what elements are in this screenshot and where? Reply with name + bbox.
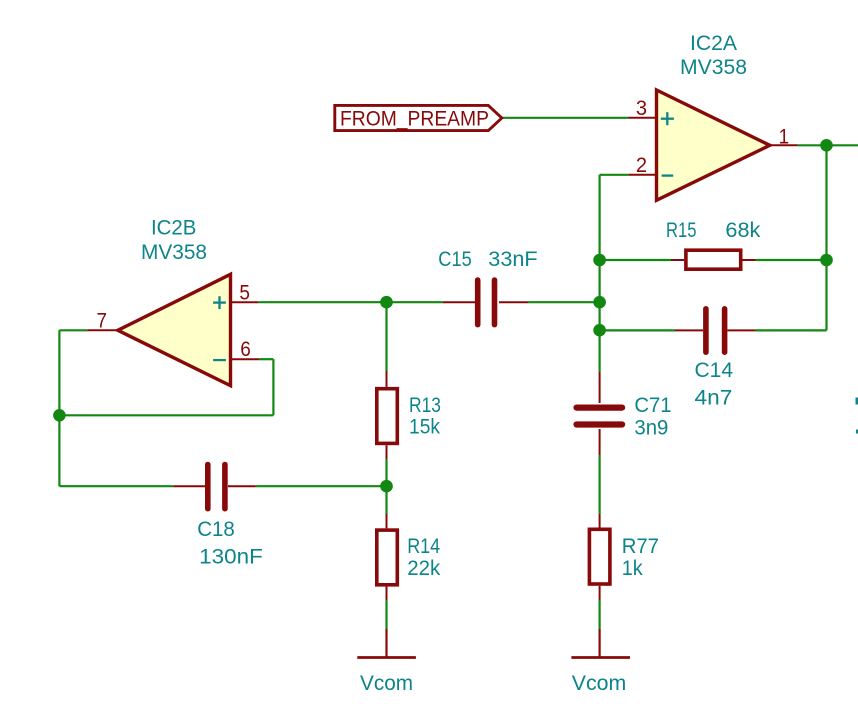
ground Vcom left (357, 629, 416, 658)
op-amp IC2B plus symbol (213, 296, 226, 309)
op-amp IC2B minus symbol (213, 359, 226, 361)
svg-text:15k: 15k (409, 414, 440, 438)
wire feedback horizontal (59, 414, 273, 416)
capacitor C18 (173, 465, 255, 509)
edge-clipped label fragment lower (856, 430, 858, 434)
svg-text:Vcom: Vcom (360, 671, 413, 695)
capacitor C15 (443, 280, 528, 325)
svg-text:FROM_PREAMP: FROM_PREAMP (340, 106, 489, 130)
svg-text:R14: R14 (407, 534, 440, 558)
svg-text:68k: 68k (725, 218, 760, 242)
op-amp U IC2B body (118, 274, 231, 385)
junction C14 node (593, 324, 606, 337)
svg-text:1: 1 (779, 125, 790, 149)
wire C15 right to node (528, 301, 600, 303)
junction output node (820, 139, 833, 152)
wire R13 bottom to R14 top (385, 459, 387, 514)
svg-text:Vcom: Vcom (572, 671, 627, 695)
wire R15 left (600, 259, 671, 261)
wire pin 2 horizontal (600, 174, 629, 176)
junction pin7 feedback node (53, 409, 66, 422)
svg-text:6: 6 (240, 337, 251, 361)
wire left vertical pin7 to C18 row (58, 330, 60, 486)
svg-text:R77: R77 (622, 534, 659, 558)
wire C71 to R77 (598, 455, 600, 514)
op-amp U IC2A body (657, 90, 770, 200)
svg-text:C15: C15 (438, 247, 471, 271)
junction R15 right (820, 254, 833, 267)
svg-text:5: 5 (239, 280, 250, 304)
resistor R15 (671, 250, 756, 269)
junction C15 node (593, 296, 606, 309)
svg-text:IC2A: IC2A (690, 31, 738, 55)
capacitor C71 (577, 372, 623, 455)
svg-text:IC2B: IC2B (151, 216, 196, 240)
wire mid vertical pin2 to C71 (598, 175, 600, 372)
junction R13 bottom node (380, 480, 393, 493)
wire C18 right to R13 node (256, 485, 387, 487)
capacitor C14 (675, 309, 756, 352)
pin 7 stub (87, 329, 117, 331)
junction R13 top node (380, 296, 393, 309)
ground Vcom right (571, 629, 630, 658)
edge-clipped label fragment upper (856, 398, 858, 405)
svg-text:130nF: 130nF (199, 544, 263, 568)
resistor R77 (589, 514, 610, 600)
wire FROM_PREAMP to pin 3 (501, 117, 629, 119)
svg-text:C18: C18 (197, 517, 235, 541)
svg-text:1k: 1k (622, 556, 643, 580)
svg-text:C71: C71 (634, 393, 671, 417)
wire R77 to ground (598, 600, 600, 629)
wire output pin 1 to right edge (798, 144, 858, 146)
svg-text:4n7: 4n7 (695, 386, 733, 410)
wire C18 left (59, 485, 173, 487)
svg-text:MV358: MV358 (680, 55, 747, 79)
wire pin 6 vertical (272, 359, 274, 415)
wire node to R13 top (385, 302, 387, 371)
svg-text:22k: 22k (407, 556, 440, 580)
pin 3 stub (629, 117, 657, 119)
svg-text:2: 2 (636, 153, 647, 177)
svg-text:3n9: 3n9 (634, 416, 668, 440)
svg-text:MV358: MV358 (141, 240, 207, 264)
wire C14 right (756, 329, 827, 331)
pin 1 stub (770, 144, 798, 146)
pin 5 stub (231, 301, 259, 303)
wire R14 to ground (385, 600, 387, 629)
wire C14 left (600, 329, 675, 331)
wire pin 6 horizontal (259, 358, 273, 360)
resistor R13 (377, 371, 398, 459)
svg-text:33nF: 33nF (488, 247, 537, 271)
svg-text:C14: C14 (695, 358, 734, 382)
svg-text:7: 7 (97, 309, 108, 333)
op-amp IC2A plus symbol (661, 112, 674, 125)
wire R15 right (756, 259, 827, 261)
resistor R14 (377, 514, 398, 600)
wire right vertical output to C14 row (825, 145, 827, 330)
wire pin 7 horizontal (59, 329, 87, 331)
svg-text:3: 3 (636, 96, 647, 120)
pin 2 stub (629, 174, 657, 176)
hierarchical label FROM_PREAMP (335, 105, 502, 130)
pin 6 stub (231, 358, 260, 360)
op-amp IC2A minus symbol (662, 174, 674, 176)
svg-text:R13: R13 (409, 393, 441, 417)
svg-text:R15: R15 (666, 218, 697, 242)
junction R15 left (593, 254, 606, 267)
wire pin 5 to C15 (258, 301, 443, 303)
